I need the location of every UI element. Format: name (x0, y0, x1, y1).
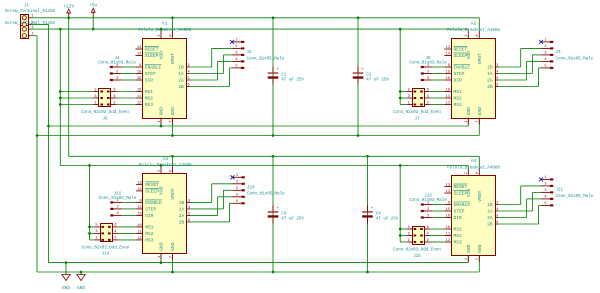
svg-text:7: 7 (169, 120, 173, 122)
svg-text:C3: C3 (281, 213, 287, 217)
svg-text:RESET: RESET (454, 184, 468, 190)
svg-text:3: 3 (188, 199, 190, 203)
svg-text:2: 2 (116, 70, 118, 74)
svg-text:16: 16 (137, 77, 141, 81)
svg-text:1: 1 (465, 258, 469, 260)
svg-text:MS1: MS1 (145, 89, 154, 95)
svg-text:RESET: RESET (454, 47, 468, 53)
svg-text:DIR: DIR (145, 213, 154, 219)
svg-text:GND: GND (170, 242, 176, 251)
svg-text:1B: 1B (178, 65, 184, 71)
svg-text:14: 14 (446, 52, 450, 56)
svg-text:3: 3 (408, 95, 410, 99)
svg-text:4: 4 (188, 70, 190, 74)
svg-text:GND: GND (159, 107, 165, 116)
svg-text:3: 3 (116, 77, 118, 81)
svg-text:4: 4 (427, 232, 429, 236)
svg-text:1: 1 (408, 101, 410, 105)
svg-text:DIR: DIR (454, 215, 463, 221)
svg-text:4: 4 (427, 95, 429, 99)
svg-text:14: 14 (137, 188, 141, 192)
svg-text:MS1: MS1 (454, 227, 463, 233)
svg-text:8: 8 (169, 34, 173, 36)
svg-text:3: 3 (427, 77, 429, 81)
svg-text:VMOT: VMOT (170, 53, 176, 64)
svg-text:J2: J2 (247, 51, 253, 55)
svg-text:J5: J5 (425, 57, 431, 61)
svg-text:Conn_01x03_Male: Conn_01x03_Male (98, 61, 136, 66)
svg-text:MS2: MS2 (145, 96, 154, 102)
svg-text:VMOT: VMOT (477, 53, 483, 64)
svg-text:Conn_02x03_Odd_Even: Conn_02x03_Odd_Even (393, 110, 441, 115)
svg-text:16: 16 (446, 214, 450, 218)
svg-text:GND: GND (466, 244, 472, 253)
svg-text:2: 2 (544, 183, 546, 187)
svg-text:2B: 2B (487, 84, 493, 90)
svg-text:3: 3 (94, 95, 96, 99)
svg-text:13: 13 (446, 183, 450, 187)
svg-text:2B: 2B (487, 222, 493, 228)
svg-text:DIR: DIR (454, 78, 463, 84)
svg-text:Conn_01x03_Male: Conn_01x03_Male (409, 198, 447, 203)
svg-text:A4: A4 (471, 158, 477, 164)
svg-text:GND: GND (477, 244, 483, 253)
svg-text:5: 5 (236, 200, 238, 204)
svg-text:MS3: MS3 (145, 102, 154, 108)
svg-text:J7: J7 (414, 117, 420, 121)
svg-text:6: 6 (188, 83, 190, 87)
svg-text:Conn_02x03_Odd_Even: Conn_02x03_Odd_Even (82, 245, 130, 250)
svg-text:11: 11 (446, 232, 450, 236)
svg-text:6: 6 (496, 221, 498, 225)
svg-text:RESET: RESET (145, 182, 159, 188)
svg-text:4: 4 (544, 58, 546, 62)
svg-text:VMOT: VMOT (170, 188, 176, 199)
svg-text:STEP: STEP (145, 71, 156, 77)
svg-text:15: 15 (446, 70, 450, 74)
svg-text:2: 2 (427, 101, 429, 105)
svg-text:2: 2 (465, 172, 469, 174)
svg-text:6: 6 (188, 219, 190, 223)
svg-text:Conn_02x03_Odd_Even: Conn_02x03_Odd_Even (393, 248, 441, 253)
svg-text:1: 1 (32, 15, 34, 19)
svg-text:J12: J12 (114, 192, 122, 196)
svg-text:4: 4 (235, 58, 237, 62)
svg-text:8: 8 (169, 170, 173, 172)
svg-text:11: 11 (446, 95, 450, 99)
svg-text:2: 2 (114, 237, 116, 241)
svg-text:13: 13 (446, 46, 450, 50)
svg-text:1: 1 (235, 39, 237, 43)
svg-text:Conn_01x03_Male: Conn_01x03_Male (99, 196, 137, 201)
svg-text:4: 4 (188, 206, 190, 210)
svg-text:5: 5 (188, 77, 190, 81)
svg-text:9: 9 (448, 201, 450, 205)
svg-text:2: 2 (117, 206, 119, 210)
svg-text:2: 2 (113, 101, 115, 105)
svg-text:J10: J10 (247, 186, 255, 190)
svg-text:3: 3 (544, 189, 546, 193)
svg-text:47 uF 25V: 47 uF 25V (376, 218, 399, 222)
svg-text:Conn_01x03_Male: Conn_01x03_Male (409, 61, 447, 66)
svg-text:5: 5 (95, 224, 97, 228)
svg-text:Conn_01x05_Male: Conn_01x05_Male (247, 56, 285, 61)
svg-text:3: 3 (188, 64, 190, 68)
svg-text:ENABLE: ENABLE (454, 202, 471, 208)
svg-text:15: 15 (137, 206, 141, 210)
svg-text:6: 6 (114, 224, 116, 228)
svg-text:STEP: STEP (145, 207, 156, 213)
svg-text:1A: 1A (487, 209, 493, 215)
svg-text:2: 2 (158, 34, 162, 36)
svg-text:+12V: +12V (63, 4, 74, 10)
svg-text:6: 6 (427, 88, 429, 92)
svg-text:5: 5 (408, 226, 410, 230)
svg-text:A2: A2 (471, 21, 477, 27)
svg-text:1: 1 (408, 239, 410, 243)
svg-text:A3: A3 (162, 156, 168, 162)
svg-text:12: 12 (446, 239, 450, 243)
svg-text:5: 5 (188, 212, 190, 216)
svg-text:47 uF 25V: 47 uF 25V (366, 79, 389, 83)
svg-text:1: 1 (95, 237, 97, 241)
svg-text:VDD: VDD (466, 51, 472, 60)
svg-text:1: 1 (544, 39, 546, 43)
svg-text:47 uF 25V: 47 uF 25V (281, 218, 304, 222)
svg-text:SLEEP: SLEEP (145, 189, 159, 195)
svg-text:14: 14 (446, 190, 450, 194)
svg-text:MS3: MS3 (145, 238, 154, 244)
svg-text:3: 3 (95, 230, 97, 234)
svg-text:Screw_Terminal_01x02: Screw_Terminal_01x02 (5, 9, 56, 14)
svg-text:ENABLE: ENABLE (145, 65, 162, 71)
svg-text:2: 2 (32, 33, 34, 37)
svg-text:Conn_02x03_Odd_Even: Conn_02x03_Odd_Even (81, 110, 129, 115)
svg-text:2: 2 (236, 181, 238, 185)
svg-text:9: 9 (140, 199, 142, 203)
svg-text:VDD: VDD (466, 188, 472, 197)
svg-text:J15: J15 (413, 255, 421, 259)
svg-text:C4: C4 (376, 213, 382, 217)
svg-text:2A: 2A (487, 78, 493, 84)
svg-text:47 uF 25V: 47 uF 25V (281, 79, 304, 83)
svg-text:2: 2 (427, 70, 429, 74)
svg-text:1: 1 (544, 176, 546, 180)
svg-text:8: 8 (476, 34, 480, 36)
svg-text:J6: J6 (102, 117, 108, 121)
svg-text:1: 1 (158, 120, 162, 122)
svg-text:A1: A1 (162, 21, 168, 27)
svg-text:16: 16 (137, 212, 141, 216)
svg-text:8: 8 (476, 172, 480, 174)
svg-text:Conn_01x05_Male: Conn_01x05_Male (247, 192, 285, 197)
svg-text:MS3: MS3 (454, 102, 463, 108)
svg-text:3: 3 (236, 187, 238, 191)
svg-text:5: 5 (544, 202, 546, 206)
svg-text:3: 3 (408, 232, 410, 236)
svg-text:10: 10 (137, 88, 141, 92)
svg-text:1B: 1B (487, 65, 493, 71)
svg-text:J3: J3 (556, 51, 562, 55)
svg-text:GND: GND (477, 107, 483, 116)
svg-text:STEP: STEP (454, 209, 465, 215)
svg-text:1A: 1A (487, 71, 493, 77)
svg-text:+5V: +5V (89, 3, 98, 9)
svg-text:2B: 2B (178, 84, 184, 90)
svg-text:13: 13 (137, 181, 141, 185)
svg-text:3: 3 (496, 201, 498, 205)
svg-text:C1: C1 (281, 74, 287, 78)
svg-text:4: 4 (114, 230, 116, 234)
svg-text:5: 5 (496, 214, 498, 218)
svg-text:J14: J14 (102, 253, 110, 257)
svg-text:2: 2 (544, 45, 546, 49)
svg-text:16: 16 (446, 77, 450, 81)
svg-text:4: 4 (496, 208, 498, 212)
svg-text:Screw_Terminal_01x02: Screw_Terminal_01x02 (5, 21, 56, 26)
svg-text:ENABLE: ENABLE (454, 65, 471, 71)
svg-text:GND: GND (159, 242, 165, 251)
svg-text:10: 10 (137, 224, 141, 228)
svg-text:1: 1 (236, 174, 238, 178)
svg-text:1: 1 (465, 120, 469, 122)
svg-text:MS2: MS2 (454, 96, 463, 102)
svg-text:10: 10 (446, 226, 450, 230)
svg-text:Pololu_Breakout_A4988: Pololu_Breakout_A4988 (139, 163, 192, 168)
svg-text:MS2: MS2 (454, 233, 463, 239)
svg-text:6: 6 (496, 83, 498, 87)
svg-text:2A: 2A (178, 78, 184, 84)
svg-text:Pololu_Breakout_A4988: Pololu_Breakout_A4988 (447, 165, 500, 170)
svg-text:4: 4 (113, 95, 115, 99)
svg-text:3: 3 (235, 52, 237, 56)
svg-text:13: 13 (137, 46, 141, 50)
svg-text:VDD: VDD (159, 51, 165, 60)
svg-text:15: 15 (137, 70, 141, 74)
svg-text:GND: GND (466, 107, 472, 116)
svg-text:3: 3 (427, 214, 429, 218)
svg-text:5: 5 (544, 65, 546, 69)
svg-text:C2: C2 (366, 74, 372, 78)
svg-text:2: 2 (427, 239, 429, 243)
svg-text:1: 1 (32, 26, 34, 30)
svg-text:1A: 1A (178, 71, 184, 77)
svg-text:GND: GND (170, 107, 176, 116)
svg-text:1: 1 (94, 101, 96, 105)
svg-text:4: 4 (544, 196, 546, 200)
svg-text:1B: 1B (487, 202, 493, 208)
svg-text:SLEEP: SLEEP (454, 53, 468, 59)
svg-text:GND: GND (77, 285, 85, 291)
svg-text:15: 15 (446, 208, 450, 212)
svg-text:DIR: DIR (145, 78, 154, 84)
svg-text:RESET: RESET (145, 47, 159, 53)
svg-text:4: 4 (236, 194, 238, 198)
svg-text:Pololu_Breakout_A4988: Pololu_Breakout_A4988 (447, 28, 500, 33)
svg-text:2: 2 (235, 45, 237, 49)
svg-text:2A: 2A (179, 213, 185, 219)
svg-text:1B: 1B (179, 200, 185, 206)
svg-text:3: 3 (496, 64, 498, 68)
svg-text:11: 11 (137, 95, 141, 99)
svg-text:3: 3 (117, 212, 119, 216)
svg-text:SLEEP: SLEEP (145, 53, 159, 59)
svg-text:MS1: MS1 (454, 89, 463, 95)
svg-text:7: 7 (476, 120, 480, 122)
svg-text:12: 12 (446, 101, 450, 105)
svg-text:Conn_01x05_Male: Conn_01x05_Male (556, 194, 594, 199)
svg-text:VDD: VDD (159, 186, 165, 195)
svg-text:SLEEP: SLEEP (454, 191, 468, 197)
svg-text:GND: GND (62, 285, 70, 291)
svg-text:ENABLE: ENABLE (145, 200, 162, 206)
svg-text:2: 2 (465, 34, 469, 36)
svg-text:1A: 1A (179, 207, 185, 213)
svg-text:2: 2 (427, 208, 429, 212)
svg-text:STEP: STEP (454, 71, 465, 77)
svg-text:12: 12 (137, 237, 141, 241)
svg-text:10: 10 (446, 88, 450, 92)
svg-text:7: 7 (476, 258, 480, 260)
svg-text:Pololu_Breakout_A4988: Pololu_Breakout_A4988 (138, 28, 191, 33)
svg-text:2A: 2A (487, 215, 493, 221)
svg-text:VMOT: VMOT (477, 190, 483, 201)
svg-text:J4: J4 (114, 57, 120, 61)
svg-text:5: 5 (94, 88, 96, 92)
svg-text:1: 1 (158, 256, 162, 258)
svg-text:9: 9 (139, 64, 141, 68)
svg-text:3: 3 (544, 52, 546, 56)
svg-text:Conn_01x05_Male: Conn_01x05_Male (556, 56, 594, 61)
svg-text:5: 5 (408, 88, 410, 92)
svg-text:5: 5 (496, 77, 498, 81)
svg-text:14: 14 (137, 52, 141, 56)
svg-text:6: 6 (113, 88, 115, 92)
svg-text:11: 11 (137, 230, 141, 234)
svg-text:MS3: MS3 (454, 240, 463, 246)
svg-text:6: 6 (427, 226, 429, 230)
svg-text:12: 12 (137, 101, 141, 105)
svg-text:MS1: MS1 (145, 225, 154, 231)
svg-text:7: 7 (169, 256, 173, 258)
svg-text:MS2: MS2 (145, 231, 154, 237)
svg-text:4: 4 (496, 70, 498, 74)
svg-text:2B: 2B (179, 220, 185, 226)
svg-text:J1: J1 (24, 4, 30, 8)
svg-text:J11: J11 (556, 189, 564, 193)
svg-text:5: 5 (235, 65, 237, 69)
svg-text:9: 9 (448, 64, 450, 68)
svg-text:2: 2 (158, 170, 162, 172)
svg-text:J13: J13 (424, 194, 432, 198)
